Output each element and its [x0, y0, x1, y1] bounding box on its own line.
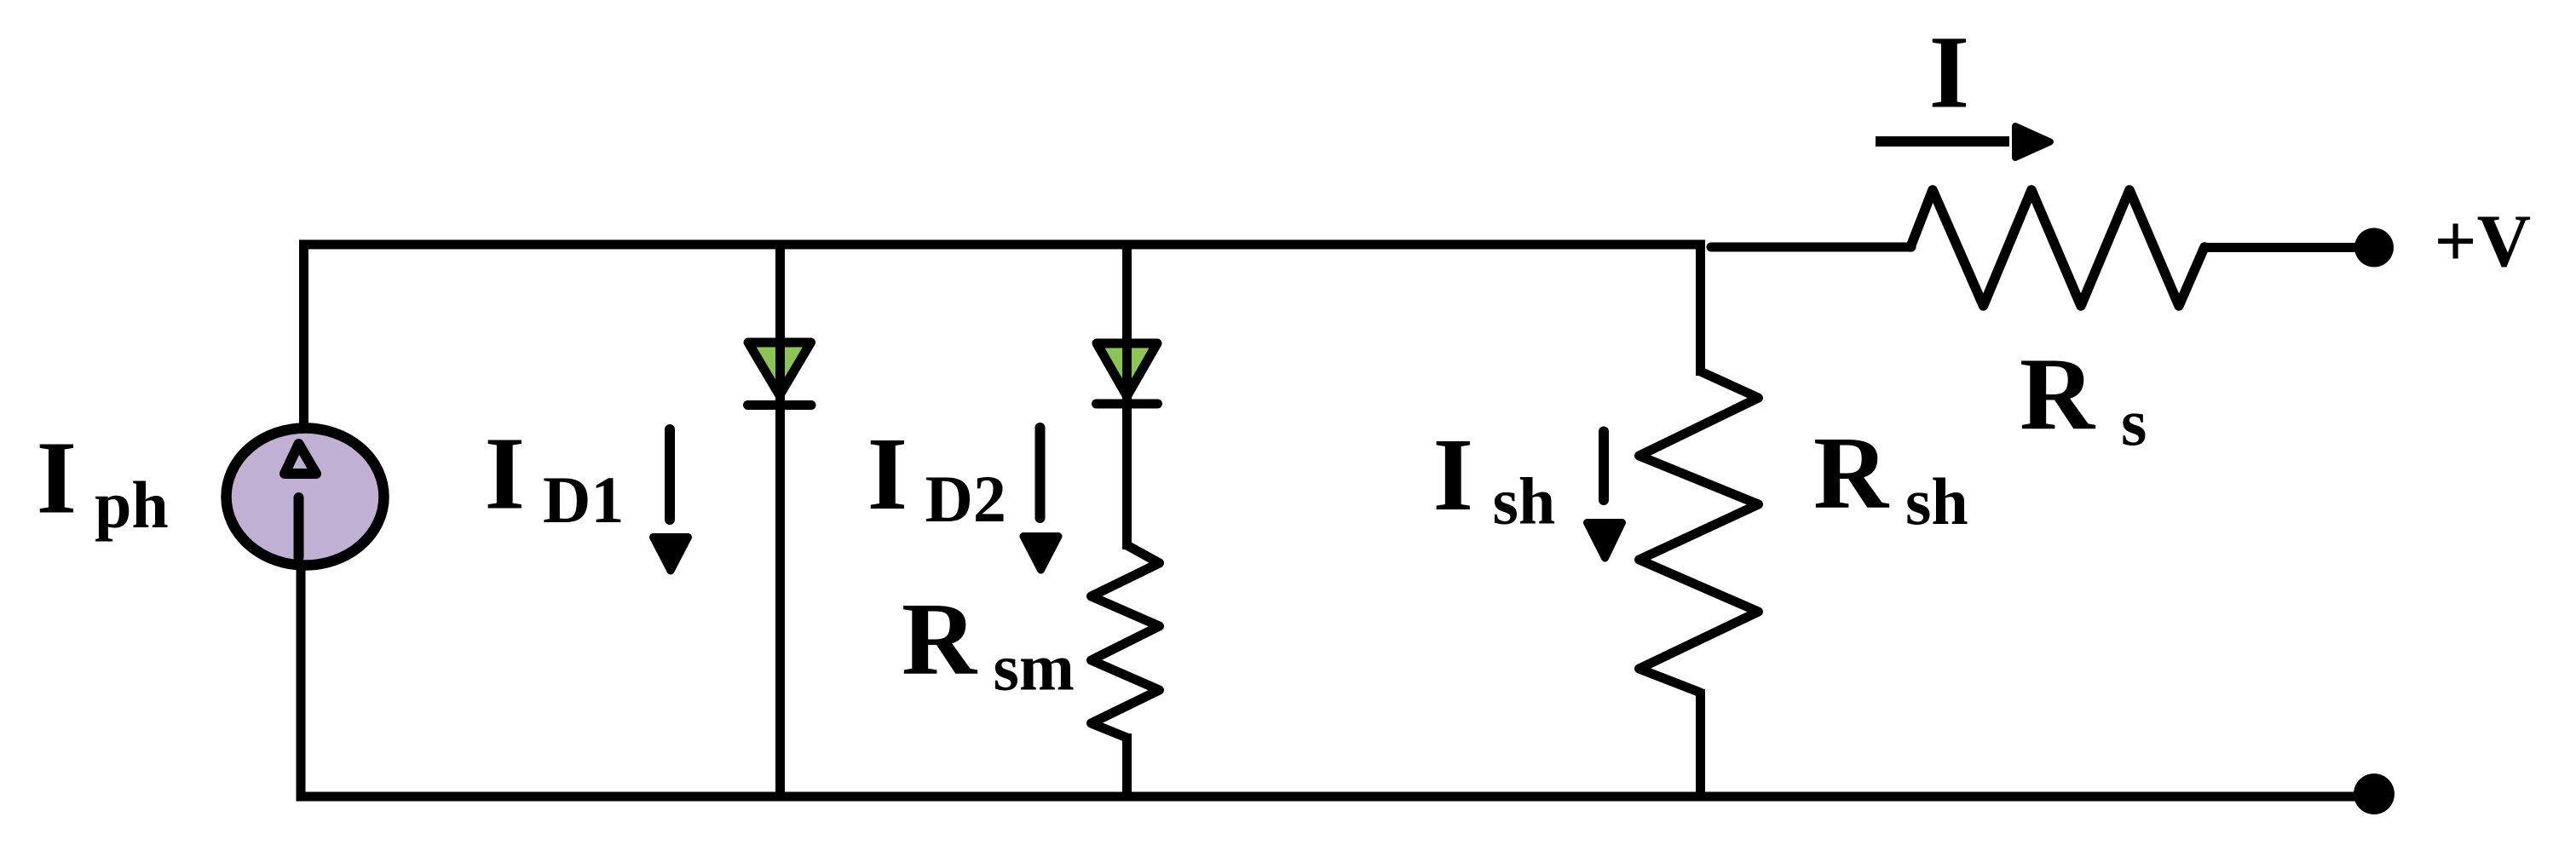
- svg-text:I: I: [1433, 417, 1473, 532]
- svg-text:+V: +V: [2435, 200, 2532, 283]
- wire: left branch lower segment: [297, 564, 306, 802]
- svg-text:R: R: [2020, 337, 2096, 452]
- svg-text:D2: D2: [925, 462, 1006, 536]
- resistor Rs zigzag: [1910, 190, 2204, 306]
- wire: Rs right lead: [2204, 243, 2360, 252]
- current arrow ID2 head: [1023, 537, 1058, 571]
- svg-text:D1: D1: [543, 463, 624, 537]
- current arrow ID1 shaft: [665, 429, 675, 520]
- terminal dot +V: [2354, 228, 2394, 267]
- diode D1 cathode bar: [748, 400, 812, 410]
- resistor Rsm zigzag: [1092, 545, 1160, 738]
- resistor Rsh zigzag: [1640, 371, 1759, 693]
- current arrow I head: [2015, 126, 2050, 158]
- diode D2 cathode bar: [1097, 400, 1158, 409]
- svg-text:sh: sh: [1493, 464, 1556, 538]
- wire: left branch upper segment: [299, 240, 308, 431]
- diode D2 (green triangle): [1097, 343, 1157, 396]
- wire: diode D1 branch vertical: [775, 240, 785, 802]
- current arrow ID1 head: [654, 538, 689, 572]
- current arrow I shaft: [1876, 136, 2009, 147]
- wire: Rs left lead: [1711, 243, 1911, 252]
- svg-text:I: I: [485, 417, 525, 532]
- svg-text:I: I: [867, 417, 908, 532]
- svg-text:ph: ph: [95, 468, 169, 542]
- svg-text:R: R: [902, 582, 978, 697]
- svg-text:sm: sm: [994, 630, 1075, 705]
- wire: diode D2 branch upper vertical: [1122, 240, 1132, 550]
- diode D1 (green triangle): [748, 342, 811, 395]
- wire: top bus: [299, 240, 1705, 250]
- svg-text:sh: sh: [1905, 464, 1968, 538]
- current source Iph circle: [227, 428, 384, 566]
- terminal dot bottom right: [2354, 774, 2394, 814]
- wire: bottom bus: [297, 792, 2375, 802]
- svg-text:I: I: [37, 421, 77, 536]
- current source arrow head (hollow triangle): [285, 444, 316, 474]
- svg-text:s: s: [2121, 385, 2147, 459]
- wire: below Rsm: [1122, 733, 1132, 802]
- svg-text:R: R: [1813, 416, 1890, 531]
- wire: Rsh branch upper vertical: [1696, 240, 1705, 377]
- current arrow ID2 shaft: [1035, 428, 1046, 518]
- wire: below Rsh: [1696, 689, 1705, 802]
- current arrow Ish head: [1588, 523, 1622, 559]
- svg-text:I: I: [1929, 14, 1969, 129]
- current arrow Ish shaft: [1599, 432, 1609, 501]
- current source arrow shaft: [294, 498, 304, 557]
